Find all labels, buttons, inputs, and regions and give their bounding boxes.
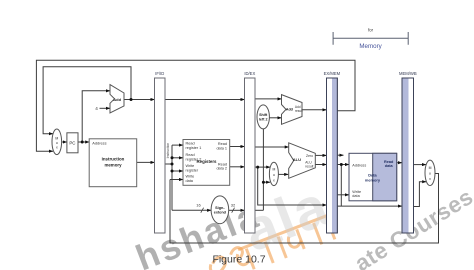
svg-text:IF/ID: IF/ID: [155, 71, 164, 76]
svg-text:register: register: [186, 168, 199, 172]
svg-text:x: x: [429, 177, 431, 181]
svg-text:data: data: [385, 164, 394, 168]
svg-text:Add: Add: [286, 107, 293, 111]
svg-text:u: u: [273, 173, 275, 177]
svg-text:u: u: [429, 172, 431, 176]
svg-text:Address: Address: [352, 163, 366, 167]
svg-text:data: data: [186, 179, 194, 183]
svg-text:EX/MEM: EX/MEM: [324, 71, 341, 76]
svg-text:x: x: [56, 146, 58, 150]
svg-text:Read: Read: [218, 142, 227, 146]
svg-text:MEM/WB: MEM/WB: [399, 71, 417, 76]
svg-text:Instruction: Instruction: [166, 143, 170, 159]
svg-text:left 2: left 2: [259, 118, 268, 122]
svg-text:Write: Write: [352, 190, 361, 194]
svg-text:M: M: [55, 137, 58, 141]
svg-text:register 1: register 1: [186, 146, 202, 150]
svg-text:for: for: [368, 28, 373, 33]
svg-text:Address: Address: [92, 140, 106, 145]
svg-text:Read: Read: [186, 142, 195, 146]
svg-text:M: M: [429, 166, 432, 170]
svg-text:ID/EX: ID/EX: [244, 71, 255, 76]
svg-text:Read: Read: [384, 160, 394, 164]
svg-text:Figure 10.7: Figure 10.7: [212, 254, 265, 266]
svg-text:Memory: Memory: [359, 43, 382, 50]
svg-text:memory: memory: [365, 177, 381, 182]
svg-text:data: data: [352, 194, 360, 198]
svg-text:PC: PC: [69, 140, 75, 145]
svg-text:memory: memory: [104, 163, 122, 168]
svg-text:Instruction: Instruction: [102, 157, 125, 162]
svg-text:Add: Add: [113, 97, 121, 102]
svg-text:data 2: data 2: [216, 167, 227, 171]
svg-text:result: result: [295, 109, 303, 113]
svg-text:Read: Read: [218, 162, 227, 166]
svg-text:Shift: Shift: [259, 113, 268, 117]
svg-text:Sign-: Sign-: [215, 206, 225, 210]
svg-text:x: x: [273, 178, 275, 182]
svg-text:data 1: data 1: [216, 146, 227, 150]
svg-text:Read: Read: [186, 153, 195, 157]
svg-text:Write: Write: [186, 175, 195, 179]
svg-text:Registers: Registers: [196, 159, 217, 164]
svg-text:u: u: [56, 141, 58, 145]
svg-text:M: M: [272, 167, 275, 171]
svg-text:ALU: ALU: [293, 157, 301, 162]
svg-text:result: result: [305, 165, 313, 169]
svg-text:32: 32: [231, 203, 236, 208]
svg-text:16: 16: [196, 203, 201, 208]
svg-text:Zero: Zero: [306, 154, 313, 158]
svg-text:4: 4: [95, 106, 98, 111]
svg-text:Write: Write: [186, 164, 195, 168]
svg-text:extend: extend: [214, 211, 227, 215]
